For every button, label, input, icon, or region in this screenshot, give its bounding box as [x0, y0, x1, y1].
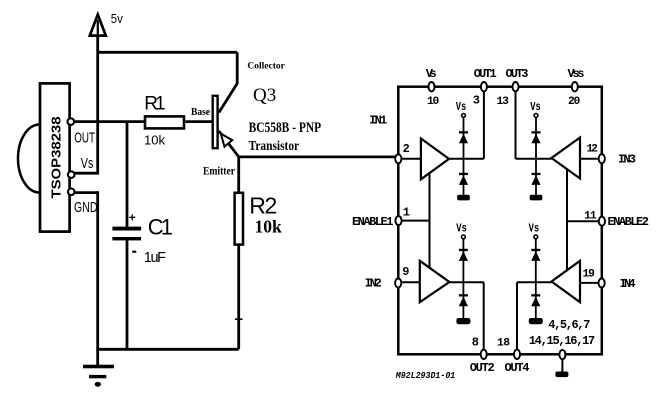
svg-text:IN4: IN4 — [620, 277, 636, 291]
svg-text:ENABLE1: ENABLE1 — [352, 215, 394, 229]
svg-text:OUT3: OUT3 — [506, 67, 529, 81]
svg-text:OUT2: OUT2 — [470, 361, 495, 375]
svg-text:10k: 10k — [144, 133, 165, 148]
svg-text:19: 19 — [582, 269, 595, 281]
svg-text:R: R — [249, 193, 266, 219]
svg-text:14,15,16,17: 14,15,16,17 — [529, 334, 596, 348]
svg-text:GND: GND — [74, 200, 98, 216]
svg-text:M92L293D1-01: M92L293D1-01 — [395, 371, 455, 381]
svg-text:Transistor: Transistor — [249, 139, 300, 154]
svg-text:4,5,6,7: 4,5,6,7 — [548, 318, 590, 332]
svg-text:13: 13 — [497, 96, 510, 108]
svg-text:Vs: Vs — [529, 222, 540, 236]
svg-text:Vs: Vs — [456, 100, 467, 114]
svg-text:Vss: Vss — [568, 67, 585, 81]
svg-text:OUT: OUT — [74, 131, 95, 147]
svg-text:Vs: Vs — [81, 156, 94, 172]
svg-text:IN2: IN2 — [365, 276, 382, 290]
svg-text:5v: 5v — [111, 11, 123, 26]
svg-text:Vs: Vs — [426, 67, 437, 81]
svg-text:18: 18 — [497, 338, 510, 350]
svg-text:1uF: 1uF — [144, 250, 166, 266]
svg-text:Q3: Q3 — [253, 85, 276, 106]
svg-text:OUT1: OUT1 — [474, 67, 497, 81]
svg-text:1: 1 — [161, 214, 173, 239]
svg-text:Vs: Vs — [530, 100, 541, 114]
svg-text:10k: 10k — [255, 216, 283, 236]
svg-text:+: + — [129, 211, 136, 225]
svg-text:Base: Base — [191, 106, 210, 118]
svg-text:IN3: IN3 — [618, 153, 636, 167]
svg-text:2: 2 — [265, 193, 278, 219]
svg-text:1: 1 — [155, 93, 166, 114]
svg-text:9: 9 — [402, 265, 409, 279]
svg-text:12: 12 — [586, 144, 598, 156]
svg-text:10: 10 — [427, 96, 440, 108]
svg-text:BC558B - PNP: BC558B - PNP — [249, 120, 322, 136]
svg-text:IN1: IN1 — [369, 113, 387, 127]
svg-text:Emitter: Emitter — [203, 166, 235, 178]
svg-text:Vs: Vs — [456, 222, 467, 236]
svg-text:OUT4: OUT4 — [505, 361, 530, 375]
svg-text:20: 20 — [568, 96, 581, 108]
svg-text:11: 11 — [584, 211, 597, 223]
svg-text:TSOP38238: TSOP38238 — [49, 116, 63, 198]
svg-text:1: 1 — [403, 205, 410, 219]
svg-text:8: 8 — [472, 336, 479, 350]
svg-text:Collector: Collector — [247, 62, 285, 72]
svg-text:3: 3 — [473, 93, 480, 107]
svg-text:2: 2 — [403, 142, 410, 156]
svg-text:ENABLE2: ENABLE2 — [607, 215, 649, 229]
